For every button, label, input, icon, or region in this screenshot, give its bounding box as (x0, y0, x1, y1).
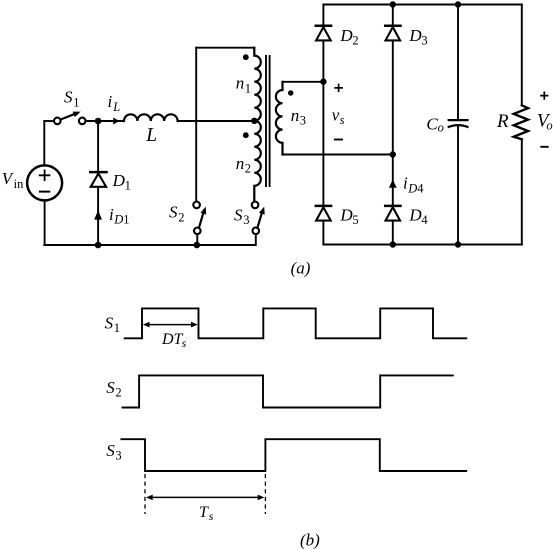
switch S2 (193, 202, 208, 235)
switch S3 (252, 202, 267, 235)
svg-text:D: D (113, 212, 123, 226)
svg-text:2: 2 (115, 386, 121, 400)
svg-text:1: 1 (123, 212, 129, 226)
wire S2 to bottom rail (196, 234, 198, 245)
svg-text:S: S (169, 203, 178, 222)
svg-text:S: S (64, 88, 73, 107)
svg-text:3: 3 (115, 449, 121, 463)
resistor R branch wire upper (521, 5, 523, 106)
svg-text:1: 1 (245, 81, 251, 95)
dashed marker left (144, 474, 146, 514)
svg-text:s: s (340, 113, 345, 127)
svg-text:in: in (14, 177, 24, 191)
transformer core (266, 56, 270, 186)
dimension arrow DTs (143, 322, 198, 328)
node top rail D3 (390, 1, 396, 7)
waveform S3 (121, 439, 466, 471)
inductor L (124, 114, 178, 121)
svg-text:C: C (426, 115, 438, 134)
voltage source Vin (27, 165, 62, 200)
svg-text:S: S (234, 206, 243, 225)
svg-text:S: S (106, 378, 115, 397)
bridge right leg wire (392, 5, 394, 245)
n2 phase dot (243, 132, 249, 138)
waveform S1 (125, 308, 467, 338)
node D1 bottom (95, 242, 102, 249)
diode D3 (385, 26, 400, 41)
svg-text:D: D (407, 181, 417, 195)
svg-text:3: 3 (300, 114, 306, 128)
node S2 bottom (194, 242, 201, 249)
dimension arrow Ts (146, 495, 264, 501)
svg-text:n: n (236, 154, 245, 173)
wire from S1 to inductor (86, 120, 125, 122)
diode D1 branch wire (97, 121, 99, 245)
svg-text:L: L (112, 100, 120, 114)
svg-text:S: S (106, 441, 115, 460)
vs plus sign (335, 85, 342, 92)
svg-text:s: s (209, 509, 214, 523)
svg-text:2: 2 (178, 210, 184, 224)
node bottom rail Co (455, 241, 461, 247)
capacitor Co (449, 120, 468, 127)
wire left vertical below Vin (44, 200, 46, 245)
svg-text:T: T (199, 504, 209, 521)
wire bottom rail left section (44, 234, 256, 245)
svg-text:1: 1 (125, 179, 131, 193)
wire inductor to transformer center tap (178, 120, 255, 122)
svg-text:DT: DT (161, 331, 184, 348)
wire left vertical above Vin (43, 121, 45, 165)
svg-text:1: 1 (73, 96, 79, 110)
wire top-left from source to switch S1 (44, 120, 54, 122)
svg-text:D: D (339, 26, 353, 45)
resistor R branch wire lower (521, 139, 523, 244)
transformer winding n1 (254, 48, 261, 121)
svg-text:2: 2 (245, 161, 251, 175)
wire n3 bottom to bridge (283, 154, 393, 156)
waveform S2 (123, 375, 453, 407)
svg-text:4: 4 (417, 181, 424, 195)
wire n3 top to bridge (283, 81, 324, 83)
transformer winding n3 (276, 82, 283, 155)
Vo minus sign (541, 146, 547, 148)
svg-text:(a): (a) (291, 258, 311, 277)
current arrow iD1 (94, 210, 102, 219)
svg-text:2: 2 (352, 34, 358, 48)
svg-text:D: D (408, 206, 422, 225)
svg-text:S: S (105, 313, 114, 332)
n1 phase dot (243, 54, 249, 60)
diode D5 (316, 206, 331, 221)
node after S1 (95, 118, 102, 125)
svg-text:i: i (108, 92, 113, 111)
node vs plus (320, 78, 326, 84)
bridge left leg wire (322, 5, 324, 245)
bridge bottom rail (323, 244, 521, 246)
diode D1 (90, 172, 106, 187)
transformer winding n2 (254, 121, 261, 202)
Vin minus sign (40, 191, 49, 193)
n3 phase dot (288, 90, 293, 95)
diode D2 (316, 26, 331, 41)
wire transformer left branch vertical (195, 48, 197, 202)
svg-text:s: s (182, 336, 187, 350)
node vs minus (390, 151, 396, 157)
svg-text:5: 5 (352, 213, 358, 227)
svg-text:n: n (291, 106, 300, 125)
svg-text:D: D (112, 171, 126, 190)
bridge top rail (323, 4, 521, 6)
Vo plus sign (541, 92, 548, 99)
svg-text:1: 1 (114, 321, 120, 335)
svg-text:3: 3 (421, 34, 427, 48)
wire transformer top rail (196, 47, 254, 49)
svg-text:D: D (408, 26, 422, 45)
resistor R (514, 105, 528, 139)
svg-text:n: n (236, 74, 245, 93)
Vin plus sign (40, 170, 50, 180)
svg-text:(b): (b) (300, 531, 320, 549)
svg-text:o: o (438, 120, 444, 134)
current arrow iL (113, 118, 119, 125)
svg-text:3: 3 (243, 213, 249, 227)
svg-text:v: v (332, 105, 340, 124)
node top rail Co (455, 1, 461, 7)
current arrow iD4 (389, 180, 397, 188)
vs minus sign (335, 139, 342, 141)
diode D4 (385, 206, 400, 221)
capacitor Co branch wire lower (457, 126, 459, 245)
svg-text:R: R (496, 111, 509, 132)
svg-text:D: D (339, 206, 353, 225)
node center tap (251, 118, 257, 124)
svg-text:4: 4 (421, 213, 428, 227)
node bottom rail D4 (390, 241, 396, 247)
svg-text:o: o (546, 118, 552, 132)
switch S1 (54, 109, 85, 124)
svg-text:L: L (145, 125, 157, 146)
capacitor Co branch wire upper (457, 5, 459, 120)
dashed marker right (264, 474, 266, 514)
